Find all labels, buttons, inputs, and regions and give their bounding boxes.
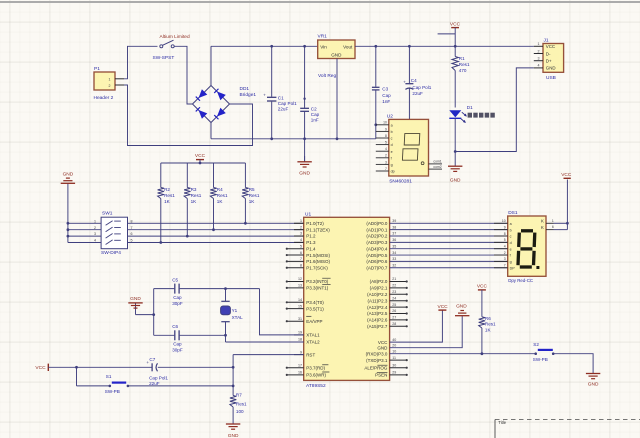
- svg-text:3: 3: [385, 160, 387, 164]
- svg-text:13: 13: [298, 284, 302, 288]
- svg-text:31: 31: [298, 317, 302, 321]
- svg-text:P1.1(T2EX): P1.1(T2EX): [306, 227, 330, 232]
- svg-text:XTAL1: XTAL1: [306, 333, 320, 338]
- svg-text:a: a: [391, 123, 393, 127]
- svg-text:c: c: [510, 235, 512, 239]
- pushbutton S1 SW-PB: [105, 374, 129, 394]
- svg-text:33: 33: [392, 257, 396, 261]
- switch SW1 SW-SPST: [153, 34, 190, 61]
- svg-text:VCC: VCC: [35, 365, 46, 371]
- svg-text:GND: GND: [228, 433, 239, 438]
- svg-text:2: 2: [300, 225, 302, 229]
- svg-text:f: f: [391, 156, 392, 160]
- svg-text:8: 8: [504, 232, 506, 236]
- svg-text:com1: com1: [433, 160, 441, 164]
- svg-text:34: 34: [392, 251, 396, 255]
- svg-text:22: 22: [392, 284, 396, 288]
- svg-text:(A15)P2.7: (A15)P2.7: [367, 324, 388, 329]
- svg-text:SW-DIP4: SW-DIP4: [101, 250, 121, 256]
- svg-text:R7: R7: [236, 392, 242, 397]
- svg-text:Cap: Cap: [311, 112, 320, 117]
- wire switch to bridge left: [174, 46, 192, 104]
- svg-text:U1: U1: [305, 211, 311, 217]
- svg-text:27: 27: [392, 316, 396, 320]
- power VCC for U1: [438, 304, 449, 310]
- pushbutton S2 SW-PB: [533, 342, 555, 362]
- svg-text:P3.5(T1): P3.5(T1): [306, 306, 324, 311]
- svg-text:5: 5: [385, 141, 387, 145]
- svg-text:20: 20: [392, 343, 396, 347]
- svg-text:11: 11: [392, 356, 396, 360]
- svg-text:1: 1: [94, 219, 96, 223]
- svg-text:VCC: VCC: [477, 284, 488, 290]
- wire P1 pin2 to bridge right: [124, 85, 253, 146]
- svg-text:P3.7(RD): P3.7(RD): [306, 365, 325, 370]
- wires U1 P0 to DS1: [390, 223, 508, 267]
- svg-text:(AD6)P0.6: (AD6)P0.6: [366, 259, 388, 264]
- svg-text:1K: 1K: [191, 199, 198, 204]
- svg-text:1: 1: [538, 42, 540, 46]
- svg-text:D+: D+: [546, 59, 552, 64]
- wire VR1 GND pin: [336, 59, 339, 141]
- crystal Y1: [221, 287, 244, 342]
- svg-text:100: 100: [236, 409, 244, 414]
- svg-text:5: 5: [504, 238, 506, 242]
- svg-text:S2: S2: [533, 342, 539, 347]
- svg-text:(AD3)P0.3: (AD3)P0.3: [366, 240, 388, 245]
- svg-text:C1: C1: [278, 95, 284, 100]
- power VCC pullups: [195, 153, 206, 163]
- svg-text:C3: C3: [382, 87, 388, 92]
- svg-text:39: 39: [392, 219, 396, 223]
- svg-text:7: 7: [300, 257, 302, 261]
- svg-text:J1: J1: [544, 38, 549, 44]
- svg-text:SW-SPST: SW-SPST: [153, 55, 175, 61]
- svg-text:C2: C2: [311, 107, 317, 112]
- svg-text:Dpy Red-CC: Dpy Red-CC: [508, 278, 533, 283]
- svg-text:R1: R1: [459, 56, 465, 61]
- svg-text:Res1: Res1: [485, 322, 496, 327]
- wire XTAL1: [260, 289, 304, 335]
- svg-text:7: 7: [385, 167, 387, 171]
- svg-text:(AD2)P0.2: (AD2)P0.2: [366, 234, 388, 239]
- wire bridge bottom to gnd rail: [210, 123, 212, 139]
- svg-text:23: 23: [392, 290, 396, 294]
- svg-text:GND: GND: [588, 382, 599, 388]
- svg-text:(A14)P2.6: (A14)P2.6: [367, 318, 388, 323]
- svg-text:VCC: VCC: [195, 153, 206, 159]
- svg-text:4: 4: [504, 245, 506, 249]
- svg-text:g: g: [510, 260, 512, 264]
- svg-text:P3.4(T0): P3.4(T0): [306, 300, 324, 305]
- svg-text:Bridge1: Bridge1: [240, 92, 257, 98]
- title block corner: [495, 420, 640, 438]
- svg-text:P1.0(T2): P1.0(T2): [306, 221, 324, 226]
- svg-text:30pF: 30pF: [172, 301, 183, 306]
- capacitor C7: [146, 357, 233, 386]
- svg-text:R5: R5: [249, 187, 255, 192]
- svg-text:5: 5: [300, 244, 302, 248]
- capacitor C5: [154, 277, 260, 306]
- svg-text:Title: Title: [498, 420, 506, 425]
- svg-text:19: 19: [298, 331, 302, 335]
- svg-text:a: a: [510, 222, 512, 226]
- svg-text:(A11)P2.3: (A11)P2.3: [367, 298, 387, 303]
- wire C5-C6 left join: [152, 289, 155, 336]
- svg-text:Cap: Cap: [173, 342, 182, 347]
- 7-seg display DS1 Dpy Red-CC: [494, 210, 567, 283]
- resistor R2: [158, 163, 176, 244]
- capacitor C3: [372, 45, 391, 139]
- svg-text:4: 4: [538, 64, 540, 68]
- svg-text:+: +: [403, 80, 406, 85]
- svg-text:8: 8: [131, 219, 133, 223]
- svg-text:VCC: VCC: [438, 304, 449, 310]
- svg-text:GND: GND: [377, 345, 388, 350]
- power VCC top-right: [438, 21, 461, 47]
- svg-text:GND: GND: [546, 66, 556, 71]
- svg-text:P1: P1: [94, 66, 100, 72]
- svg-text:e: e: [510, 247, 512, 251]
- svg-text:R4: R4: [217, 187, 223, 192]
- svg-text:21: 21: [392, 277, 396, 281]
- power VCC for R6: [477, 284, 488, 290]
- svg-text:1nF: 1nF: [382, 99, 390, 104]
- svg-text:K: K: [541, 219, 544, 224]
- svg-text:30pF: 30pF: [172, 347, 183, 352]
- svg-text:Header 2: Header 2: [94, 95, 114, 101]
- svg-text:1K: 1K: [249, 199, 256, 204]
- resistor R7: [230, 392, 247, 423]
- svg-text:P3.2(INT0): P3.2(INT0): [306, 279, 329, 284]
- svg-text:Cap Pol1: Cap Pol1: [149, 375, 168, 380]
- svg-text:XTAL: XTAL: [232, 315, 244, 320]
- resistor R1: [452, 46, 470, 73]
- resistor R6: [479, 290, 496, 355]
- DIP switch SW1 SW-DIP4: [94, 210, 133, 256]
- svg-text:GND: GND: [299, 171, 310, 177]
- svg-text:P1.6(MISO): P1.6(MISO): [306, 259, 330, 264]
- LED D1: [449, 105, 495, 123]
- svg-text:2: 2: [538, 49, 540, 53]
- wire pullup rail: [161, 162, 246, 165]
- wire +rail bridge to VR1 Vin: [211, 45, 318, 47]
- svg-text:U2: U2: [387, 113, 393, 119]
- svg-text:36: 36: [392, 238, 396, 242]
- power VCC reset: [35, 364, 151, 371]
- svg-text:14: 14: [298, 298, 302, 302]
- svg-text:9: 9: [300, 350, 302, 354]
- wire P1 pin1 to switch: [124, 46, 158, 79]
- svg-text:35: 35: [392, 244, 396, 248]
- svg-text:1: 1: [552, 219, 554, 223]
- svg-text:15: 15: [298, 304, 302, 308]
- svg-text:30: 30: [392, 363, 396, 367]
- wire XTAL2: [226, 341, 304, 343]
- svg-text:32: 32: [392, 263, 396, 267]
- connector P1 Header 2: [94, 66, 125, 101]
- svg-text:28: 28: [392, 322, 396, 326]
- svg-text:25: 25: [392, 303, 396, 307]
- svg-text:C7: C7: [149, 357, 155, 362]
- svg-text:2: 2: [385, 154, 387, 158]
- svg-text:SN460281: SN460281: [389, 178, 412, 184]
- capacitor C4: [403, 45, 432, 120]
- svg-text:SW1: SW1: [102, 210, 113, 216]
- svg-text:VR1: VR1: [318, 34, 328, 40]
- 7-seg display U2 SN460281: [376, 113, 442, 184]
- svg-text:S1: S1: [106, 374, 112, 379]
- svg-text:b: b: [391, 130, 393, 134]
- svg-text:Volt Reg: Volt Reg: [318, 73, 336, 79]
- svg-text:16: 16: [298, 371, 302, 375]
- svg-text:Res1: Res1: [164, 193, 175, 198]
- svg-text:VCC: VCC: [450, 21, 461, 27]
- svg-text:Res1: Res1: [191, 193, 202, 198]
- svg-text:18: 18: [298, 338, 302, 342]
- wire DS1 K pins to VCC: [566, 180, 569, 230]
- svg-text:9: 9: [385, 127, 387, 131]
- wire +5V rail VR1 Vout to USB: [355, 45, 534, 47]
- svg-text:com2: com2: [433, 165, 441, 169]
- svg-text:3: 3: [504, 257, 506, 261]
- svg-text:SW-PB: SW-PB: [533, 357, 548, 362]
- svg-text:RST: RST: [306, 352, 315, 357]
- svg-text:C4: C4: [411, 78, 417, 83]
- wire gnd rail: [211, 138, 376, 140]
- svg-text:37: 37: [392, 232, 396, 236]
- svg-text:6: 6: [131, 232, 133, 236]
- svg-text:24: 24: [392, 296, 396, 300]
- resistor R5: [242, 163, 260, 225]
- svg-text:D-: D-: [546, 51, 551, 56]
- svg-text:+: +: [263, 93, 266, 98]
- svg-text:DP: DP: [510, 266, 516, 270]
- svg-text:GND: GND: [456, 304, 467, 310]
- svg-text:(A10)P2.2: (A10)P2.2: [367, 292, 388, 297]
- svg-text:EA/VPP: EA/VPP: [306, 319, 322, 324]
- svg-text:1K: 1K: [217, 199, 224, 204]
- wire reset node: [232, 355, 235, 396]
- svg-text:(RXD)P3.0: (RXD)P3.0: [366, 351, 388, 356]
- wire D1 to gnd node: [454, 118, 457, 153]
- wire VCC to S1 branch: [75, 366, 110, 386]
- resistor R3: [184, 163, 202, 238]
- svg-text:26: 26: [392, 309, 396, 313]
- svg-text:Cap: Cap: [382, 93, 391, 98]
- svg-text:1K: 1K: [164, 199, 171, 204]
- ground for LED/USB: [448, 152, 462, 184]
- svg-text:GND: GND: [63, 171, 74, 177]
- svg-text:6: 6: [552, 225, 554, 229]
- power VCC display: [561, 172, 572, 178]
- wire S2 to ground: [553, 354, 593, 374]
- wire bus SW1 to U1 P1.0-P1.3: [128, 223, 304, 242]
- svg-text:SW-PB: SW-PB: [105, 389, 120, 394]
- svg-text:(A13)P2.5: (A13)P2.5: [367, 311, 388, 316]
- svg-text:17: 17: [298, 363, 302, 367]
- svg-text:b: b: [510, 228, 512, 232]
- ground for input stage: [297, 156, 311, 177]
- svg-text:(A12)P2.4: (A12)P2.4: [367, 305, 388, 310]
- svg-text:(AD4)P0.4: (AD4)P0.4: [366, 246, 388, 251]
- ground for reset: [226, 424, 240, 438]
- svg-text:(AD1)P0.1: (AD1)P0.1: [366, 227, 388, 232]
- svg-text:12: 12: [298, 277, 302, 281]
- svg-text:P1.2: P1.2: [306, 234, 316, 239]
- capacitor C6: [154, 324, 226, 352]
- svg-text:1: 1: [300, 219, 302, 223]
- svg-text:dp: dp: [391, 170, 395, 174]
- svg-text:4: 4: [300, 238, 302, 242]
- bridge rectifier DD1: [193, 86, 257, 123]
- wire U1 VCC pin: [390, 310, 443, 342]
- svg-text:c: c: [391, 137, 393, 141]
- svg-text:Vin: Vin: [320, 44, 327, 49]
- svg-text:Cap Pol1: Cap Pol1: [412, 85, 431, 90]
- svg-text:8: 8: [300, 263, 302, 267]
- ground for S2: [586, 373, 600, 387]
- svg-text:P3.6(WR): P3.6(WR): [306, 373, 326, 378]
- svg-text:VCC: VCC: [561, 172, 572, 178]
- svg-text:(A9)P2.1: (A9)P2.1: [370, 286, 388, 291]
- svg-text:D1: D1: [467, 105, 473, 110]
- svg-text:(AD5)P0.5: (AD5)P0.5: [366, 253, 388, 258]
- svg-text:R3: R3: [191, 187, 197, 192]
- resistor R4: [210, 163, 228, 231]
- svg-text:Res1: Res1: [459, 62, 470, 67]
- svg-text:AT89S52: AT89S52: [306, 383, 326, 389]
- svg-text:K: K: [541, 225, 544, 230]
- connector J1 USB: [534, 38, 564, 81]
- svg-text:e: e: [391, 150, 393, 154]
- microcontroller U1 AT89S52: [286, 211, 408, 389]
- svg-text:1K: 1K: [485, 328, 492, 333]
- svg-text:Cap: Cap: [173, 295, 182, 300]
- wire S1 to reset node: [128, 385, 233, 387]
- ground for U1: [455, 304, 469, 317]
- svg-text:GND: GND: [130, 296, 141, 302]
- svg-text:GND: GND: [331, 52, 342, 57]
- svg-text:29: 29: [392, 371, 396, 375]
- svg-text:40: 40: [392, 338, 396, 342]
- svg-text:10: 10: [383, 121, 387, 125]
- svg-text:2: 2: [504, 251, 506, 255]
- svg-text:10: 10: [392, 349, 396, 353]
- svg-text:2: 2: [109, 84, 111, 88]
- svg-text:5: 5: [131, 239, 133, 243]
- svg-text:VCC: VCC: [546, 44, 555, 49]
- capacitor C1: [263, 45, 297, 140]
- svg-text:DD1: DD1: [240, 86, 250, 92]
- svg-text:22uF: 22uF: [412, 91, 423, 96]
- wire bridge top to +rail: [210, 46, 212, 85]
- svg-text:(AD7)P0.7: (AD7)P0.7: [366, 265, 388, 270]
- svg-text:10: 10: [502, 219, 506, 223]
- svg-text:3: 3: [94, 232, 96, 236]
- svg-text:470: 470: [459, 68, 467, 73]
- svg-text:(TXD)P3.1: (TXD)P3.1: [366, 358, 388, 363]
- svg-text:Y1: Y1: [232, 308, 238, 313]
- svg-text:XTAL2: XTAL2: [306, 340, 320, 345]
- svg-text:7: 7: [504, 264, 506, 268]
- svg-text:22uF: 22uF: [278, 106, 289, 111]
- svg-text:Res1: Res1: [217, 193, 228, 198]
- svg-text:ALE/PROG: ALE/PROG: [364, 365, 388, 370]
- ground for DIP switch: [61, 171, 75, 242]
- svg-text:Altium Limited: Altium Limited: [160, 34, 190, 40]
- svg-text:d: d: [391, 143, 393, 147]
- svg-text:1nF: 1nF: [311, 118, 319, 123]
- wire U1 P3.0 to S2: [390, 353, 536, 355]
- svg-text:GND: GND: [450, 177, 461, 183]
- svg-text:6: 6: [300, 251, 302, 255]
- svg-text:USB: USB: [546, 75, 556, 81]
- svg-text:Vout: Vout: [343, 44, 353, 49]
- ground for crystal: [128, 296, 153, 314]
- wire SW1 left bus: [68, 223, 101, 242]
- svg-text:PSEN: PSEN: [375, 373, 387, 378]
- svg-text:7: 7: [131, 226, 133, 230]
- svg-text:f: f: [510, 254, 511, 258]
- svg-text:Res1: Res1: [249, 193, 260, 198]
- svg-text:(A8)P2.0: (A8)P2.0: [370, 279, 388, 284]
- svg-text:DS1: DS1: [508, 210, 518, 216]
- svg-text:8: 8: [385, 134, 387, 138]
- capacitor C2: [300, 45, 319, 162]
- svg-text:9: 9: [504, 225, 506, 229]
- svg-text:3: 3: [300, 232, 302, 236]
- svg-text:4: 4: [385, 147, 387, 151]
- wire R1 to D1: [454, 71, 456, 108]
- svg-text:g: g: [391, 163, 393, 167]
- svg-text:3: 3: [538, 57, 540, 61]
- wire gnd node to USB pin4: [455, 68, 534, 152]
- svg-text:P1.7(SCK): P1.7(SCK): [306, 265, 328, 270]
- svg-text:d: d: [510, 241, 512, 245]
- wire RST to U1: [233, 354, 304, 356]
- svg-text:Res1: Res1: [236, 402, 247, 407]
- svg-text:P1.4: P1.4: [306, 246, 316, 251]
- voltage regulator VR1: [318, 34, 356, 79]
- svg-text:C5: C5: [172, 277, 178, 282]
- svg-text:Cap Pol1: Cap Pol1: [278, 101, 297, 106]
- svg-text:C6: C6: [172, 324, 178, 329]
- svg-text:VCC: VCC: [378, 340, 388, 345]
- svg-text:(AD0)P0.0: (AD0)P0.0: [366, 221, 388, 226]
- svg-text:2: 2: [94, 226, 96, 230]
- svg-text:38: 38: [392, 225, 396, 229]
- svg-text:4: 4: [94, 239, 96, 243]
- svg-text:P1.3: P1.3: [306, 240, 316, 245]
- svg-text:1: 1: [109, 78, 111, 82]
- svg-text:P1.5(MOSI): P1.5(MOSI): [306, 253, 330, 258]
- svg-text:R6: R6: [485, 316, 491, 321]
- svg-text:P3.3(INT1): P3.3(INT1): [306, 286, 329, 291]
- svg-text:R2: R2: [164, 187, 170, 192]
- wire U1 GND pin: [390, 316, 463, 348]
